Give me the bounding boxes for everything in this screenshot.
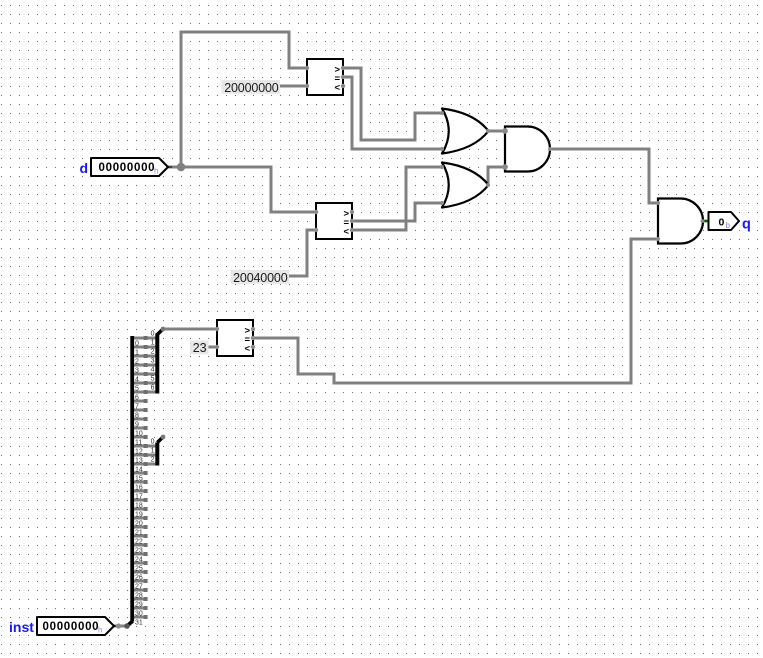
svg-text:6: 6	[151, 385, 155, 392]
svg-text:3: 3	[151, 358, 155, 365]
svg-text:2: 2	[151, 457, 155, 464]
svg-text:1: 1	[151, 340, 155, 347]
svg-text:5: 5	[151, 376, 155, 383]
svg-text:31: 31	[135, 620, 143, 627]
svg-text:00000000: 00000000	[99, 162, 156, 174]
svg-text:2: 2	[151, 349, 155, 356]
svg-text:h: h	[154, 167, 158, 176]
svg-text:0: 0	[151, 439, 155, 446]
svg-text:q: q	[742, 217, 751, 233]
svg-text:d: d	[80, 160, 89, 176]
svg-text:inst: inst	[9, 619, 34, 635]
svg-text:20000000: 20000000	[224, 81, 279, 95]
svg-text:4: 4	[151, 367, 155, 374]
svg-text:<: <	[334, 83, 340, 94]
svg-text:20040000: 20040000	[233, 271, 288, 285]
svg-text:<: <	[244, 344, 250, 355]
svg-text:<: <	[343, 227, 349, 238]
svg-text:h: h	[98, 626, 102, 635]
svg-text:00000000: 00000000	[43, 621, 100, 633]
svg-text:1: 1	[151, 448, 155, 455]
svg-text:23: 23	[193, 341, 207, 355]
svg-text:0: 0	[151, 331, 155, 338]
svg-text:b: b	[726, 221, 731, 230]
svg-text:0: 0	[719, 216, 725, 228]
